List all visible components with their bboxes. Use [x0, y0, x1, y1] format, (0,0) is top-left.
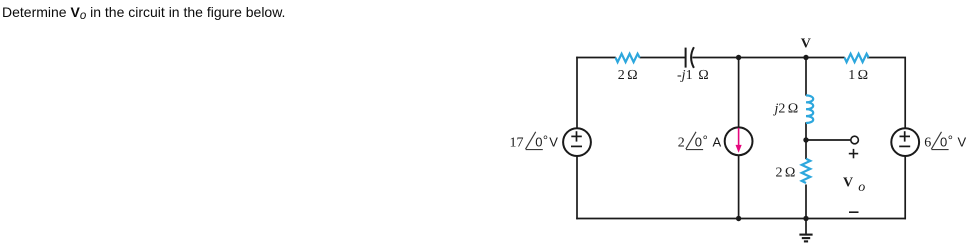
wire top segment between 2ohm resistor and capacitor: [640, 57, 686, 59]
voltage source V1 17 angle 0 V: [563, 128, 591, 156]
svg-text:A: A: [713, 135, 722, 150]
svg-text:°: °: [948, 132, 953, 147]
svg-text:V: V: [958, 135, 967, 150]
wire from Vo tap junction down to 2ohm vertical resistor: [805, 140, 807, 159]
resistor 1ohm (top right, cyan zigzag): [845, 54, 869, 62]
svg-text:6: 6: [924, 136, 931, 151]
junction dot at node V: [803, 55, 808, 60]
wire right side below source V2: [904, 156, 906, 219]
resistor 2ohm (top left, cyan zigzag): [616, 54, 640, 62]
capacitor -j1ohm curved right plate: [691, 47, 694, 68]
label + polarity of Vo (plus sign): [849, 149, 858, 158]
junction dot at Vo tap: [803, 137, 808, 142]
svg-text:-j1Ω: -j1Ω: [677, 68, 709, 83]
svg-text:0: 0: [695, 135, 702, 150]
ground symbol: [799, 219, 812, 242]
svg-text:0: 0: [940, 135, 947, 150]
svg-text:V: V: [801, 36, 811, 51]
wire Vo tap horizontal to open terminal: [806, 139, 851, 141]
junction dot at top of current-source branch: [736, 55, 741, 60]
wire left side above source V1: [576, 57, 578, 129]
svg-text:2Ω: 2Ω: [618, 68, 638, 83]
svg-text:1Ω: 1Ω: [848, 68, 868, 83]
svg-text:°: °: [543, 132, 548, 147]
title text: [2, 4, 285, 20]
wire from node V down to inductor: [805, 58, 807, 96]
svg-text:o: o: [858, 180, 865, 195]
wire top segment from capacitor to node V: [692, 57, 806, 59]
current source I1 2 angle 0 A (arrow down): [725, 127, 753, 155]
label 6 angle 0 deg V: [924, 132, 966, 151]
svg-text:°: °: [703, 132, 708, 147]
resistor 2ohm vertical (cyan zigzag): [802, 159, 811, 183]
wire from inductor down to Vo tap junction: [805, 122, 807, 140]
terminal Vo open circle: [851, 136, 859, 144]
svg-text:V: V: [843, 175, 853, 190]
capacitor -j1ohm left plate: [685, 48, 687, 68]
inductor j2ohm (cyan bumps): [806, 95, 813, 123]
wire from 2ohm vertical resistor to bottom wire: [805, 185, 807, 219]
label 2 angle 0 deg A: [678, 132, 722, 151]
wire bottom side: [576, 218, 906, 220]
svg-text:0: 0: [535, 135, 542, 150]
svg-text:17: 17: [510, 136, 524, 151]
junction dot at bottom of current-source branch: [736, 216, 741, 221]
wire from 1ohm resistor to top-right corner down to source V2: [867, 58, 905, 129]
label minus polarity of Vo: [849, 211, 859, 213]
svg-text:j2Ω: j2Ω: [773, 101, 799, 116]
wire current-source branch lower: [738, 156, 740, 219]
junction dot at ground node: [803, 216, 808, 221]
wire from node V to 1ohm resistor: [806, 57, 845, 59]
label 17 angle 0 deg V: [510, 132, 559, 151]
wire left side below source V1: [576, 156, 578, 219]
voltage source V2 6 angle 0 V: [891, 128, 919, 156]
wire top-left horizontal segment: [576, 57, 616, 59]
svg-text:2: 2: [678, 136, 685, 151]
svg-text:2Ω: 2Ω: [776, 165, 796, 180]
svg-text:V: V: [549, 135, 558, 150]
wire current-source branch upper: [738, 58, 740, 128]
